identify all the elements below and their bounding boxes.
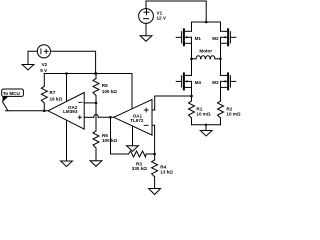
OA1 text xyxy=(130,113,144,123)
R3 labels xyxy=(132,161,147,171)
wire OA2 minus input xyxy=(84,102,96,104)
To MCU text xyxy=(3,91,20,96)
OA2 text xyxy=(63,105,78,114)
node R3/R4/minus xyxy=(153,153,156,156)
node divider/minus xyxy=(95,102,98,105)
op-amp OA1 TL972 xyxy=(114,100,152,136)
svg-text:To MCU: To MCU xyxy=(3,91,20,96)
svg-text:100 kΩ: 100 kΩ xyxy=(102,138,117,143)
R2 labels xyxy=(226,106,240,116)
resistor R2 xyxy=(218,101,224,125)
svg-text:V2: V2 xyxy=(42,62,48,67)
svg-text:M3: M3 xyxy=(212,80,219,85)
R5 labels xyxy=(102,83,117,94)
M3 label xyxy=(212,80,219,85)
wire OA2 plus / OA1 output with hop xyxy=(84,116,94,118)
svg-text:M4: M4 xyxy=(195,80,202,85)
node OA1 output/feedback xyxy=(109,116,112,119)
ground (R1R2) xyxy=(200,131,212,137)
node R7/output xyxy=(43,110,46,113)
node rail/OA2 supply xyxy=(65,72,68,75)
right leg below motor xyxy=(220,59,222,76)
wire OA2 output to MCU xyxy=(6,110,49,112)
right leg mid xyxy=(220,43,222,59)
OA2 supply stub xyxy=(66,74,68,102)
svg-text:R5: R5 xyxy=(102,83,108,88)
OA2 ground stub xyxy=(66,120,68,161)
resistor R4 xyxy=(152,154,158,189)
V1 labels xyxy=(157,11,167,21)
To MCU flag xyxy=(2,89,24,111)
wire OA1 plus to R1 sense node xyxy=(152,96,192,110)
svg-text:M1: M1 xyxy=(195,36,202,41)
R1 labels xyxy=(196,106,210,116)
R4 labels xyxy=(160,164,173,174)
svg-text:M2: M2 xyxy=(212,36,219,41)
left leg below motor xyxy=(191,59,193,76)
node sense/R1 xyxy=(190,95,193,98)
ground stub (R1R2) xyxy=(205,125,207,131)
svg-text:R7: R7 xyxy=(50,90,56,95)
svg-text:12 V: 12 V xyxy=(157,16,167,21)
R3 wire to node xyxy=(146,153,155,155)
right leg upper xyxy=(220,22,222,31)
M4 label xyxy=(195,80,202,85)
bridge top rail xyxy=(192,21,221,23)
svg-text:Motor: Motor xyxy=(199,49,212,54)
node rail/V2 xyxy=(94,72,97,75)
svg-text:TL972: TL972 xyxy=(130,118,144,123)
R7 labels xyxy=(50,90,63,102)
wire OA1 minus jog xyxy=(152,125,155,154)
resistor R3 xyxy=(129,151,147,157)
resistor R1 xyxy=(189,101,195,125)
svg-text:13 kΩ: 13 kΩ xyxy=(160,170,173,175)
op-amp OA2 LM393 xyxy=(48,93,84,130)
resistor R6 xyxy=(93,131,99,161)
svg-text:5 V: 5 V xyxy=(40,68,48,73)
transistor M3 xyxy=(221,73,236,89)
right leg to R2 xyxy=(220,87,222,101)
wire V1 bottom to ground xyxy=(145,23,147,36)
M2 label xyxy=(212,36,219,41)
left leg upper xyxy=(191,22,193,31)
5V rail xyxy=(44,73,132,75)
node rail/R5 xyxy=(95,72,98,75)
motor inductor xyxy=(190,56,222,60)
svg-text:100 kΩ: 100 kΩ xyxy=(102,89,117,94)
source V1 xyxy=(139,9,154,24)
svg-text:10 mΩ: 10 mΩ xyxy=(226,111,240,116)
ground (V2) xyxy=(22,65,34,71)
left leg to R1 xyxy=(191,87,193,101)
svg-text:330 kΩ: 330 kΩ xyxy=(132,166,147,171)
divider wire R5 to R6 xyxy=(95,103,97,131)
bottom tie wire xyxy=(192,124,221,126)
resistor R5 xyxy=(93,74,99,103)
transistor M2 xyxy=(221,29,236,45)
svg-text:10 mΩ: 10 mΩ xyxy=(196,111,210,116)
ground (R6) xyxy=(90,161,102,167)
Motor label xyxy=(199,49,212,54)
feedback wire down from output xyxy=(111,117,129,154)
wire V2 right to 5V rail xyxy=(51,51,96,73)
V2 labels xyxy=(40,62,48,73)
source V2 xyxy=(37,45,50,58)
transistor M1 xyxy=(176,29,191,45)
OA1 supply stub xyxy=(131,74,133,109)
M1 label xyxy=(195,36,202,41)
ground (OA2) xyxy=(61,161,73,167)
R6 labels xyxy=(102,133,117,143)
OA1 ground stub xyxy=(132,126,134,146)
ground (R4) xyxy=(149,189,161,195)
svg-text:19 kΩ: 19 kΩ xyxy=(50,97,63,102)
ground (OA1) xyxy=(127,146,139,152)
transistor M4 xyxy=(176,73,191,89)
left leg mid xyxy=(191,43,193,59)
ground (V1) xyxy=(140,36,152,42)
node rail/V1 xyxy=(205,21,208,24)
svg-text:LM393: LM393 xyxy=(63,109,78,114)
wire V2 left to ground xyxy=(28,51,37,64)
wire V1 top to bridge xyxy=(146,1,206,22)
resistor R7 xyxy=(41,74,47,111)
node tie/ground xyxy=(205,124,207,126)
